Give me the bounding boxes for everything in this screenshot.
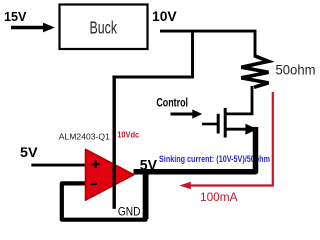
svg-text:5V: 5V [20, 145, 38, 160]
red current arrowhead [179, 182, 191, 190]
svg-text:Buck: Buck [90, 18, 118, 38]
wire feedback right vertical (thick) [143, 174, 149, 219]
op-amp plus input mark [92, 160, 100, 168]
svg-text:50ohm: 50ohm [276, 62, 316, 78]
arrow control gate [171, 113, 194, 116]
op-amp minus input mark [91, 183, 97, 185]
svg-text:15V: 15V [4, 9, 27, 24]
op-amp V+ supply and gnd pin line (over triangle) [112, 76, 115, 209]
transistor Q1 gate lead [202, 123, 217, 126]
svg-text:ALM2403-Q1: ALM2403-Q1 [59, 132, 110, 142]
transistor Q1 channel bar [224, 108, 227, 138]
svg-text:10Vdc: 10Vdc [117, 129, 139, 139]
wire feedback loop output to inverting input [62, 172, 146, 220]
svg-text:Control: Control [156, 98, 188, 110]
wire mosfet source to op-amp output node [134, 127, 256, 172]
arrow 15V input [11, 26, 44, 29]
resistor R 50ohm zigzag [241, 56, 268, 88]
svg-text:10V: 10V [152, 8, 177, 24]
transistor Q1 source lead [226, 128, 248, 131]
wire resistor to mosfet drain [226, 86, 252, 114]
svg-text:GND: GND [118, 204, 141, 218]
svg-text:100mA: 100mA [200, 190, 238, 204]
buck converter box [60, 5, 148, 50]
arrow source current direction [245, 124, 257, 135]
transistor Q1 gate bar [217, 114, 220, 134]
svg-text:5V: 5V [140, 157, 157, 174]
wire supply tap to op-amp V+ pin [112, 31, 192, 77]
wire buck output to resistor [160, 31, 255, 57]
op-amp U1 ALM2403-Q1 triangle [86, 149, 134, 200]
wire 5V source to non-inverting input [31, 164, 87, 167]
red current path wire [190, 92, 273, 186]
